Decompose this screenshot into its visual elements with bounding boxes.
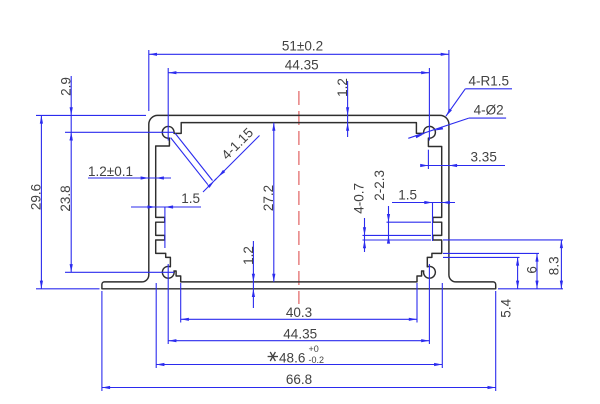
dimension 1.5 (right PCB rail depth) [392, 202, 455, 204]
svg-text:4-0.7: 4-0.7 [352, 183, 367, 214]
red dashed vertical centerline [298, 91, 300, 304]
svg-text:1.5: 1.5 [398, 188, 417, 203]
dimension *48.6 +0/-0.2 (inner width between walls) [155, 283, 157, 368]
svg-text:44.35: 44.35 [283, 327, 317, 342]
dimension 6 (right, step to bottom) [443, 252, 539, 254]
leader 4-R1.5 (corner radius callout) [465, 88, 512, 90]
aluminum enclosure profile cross-section: outer outline [102, 115, 496, 288]
dimension 2.9 (top edge to boss centerline) [70, 76, 72, 272]
svg-text:+0: +0 [309, 344, 319, 354]
svg-text:4-Ø2: 4-Ø2 [474, 103, 504, 118]
dimension 1.5 (left PCB rail depth) [131, 206, 201, 208]
svg-text:29.6: 29.6 [29, 184, 44, 210]
svg-text:1.2±0.1: 1.2±0.1 [88, 164, 133, 179]
svg-text:27.2: 27.2 [261, 185, 276, 211]
dimension 40.3 (bottom inner width) [180, 283, 182, 323]
dimension 23.8 (between boss centerlines) [65, 131, 174, 133]
svg-text:2-2.3: 2-2.3 [372, 170, 387, 201]
dimension 51±0.2 (top outer width) [148, 50, 150, 111]
asterisk star symbol [268, 356, 278, 358]
svg-text:1.2: 1.2 [335, 78, 350, 97]
svg-text:66.8: 66.8 [286, 372, 312, 387]
dimension 29.6 (overall height, left) [36, 114, 146, 116]
svg-text:3.35: 3.35 [471, 150, 497, 165]
svg-text:23.8: 23.8 [58, 185, 73, 211]
dimension 2-2.3 (rail slot gap, 2 places) [387, 221, 432, 223]
svg-text:40.3: 40.3 [286, 305, 312, 320]
svg-text:51±0.2: 51±0.2 [282, 39, 323, 54]
svg-text:48.6: 48.6 [279, 351, 305, 366]
svg-text:1.2: 1.2 [241, 246, 256, 265]
dimension 5.4 (right, lower step to bottom) [443, 256, 520, 258]
dimension 27.2 (inner cavity height) [273, 123, 275, 282]
svg-text:44.35: 44.35 [285, 58, 319, 73]
svg-text:-0.2: -0.2 [309, 355, 325, 365]
dimension 8.3 (right, rail to bottom) [443, 239, 563, 241]
dimension 4-1.15 (boss slot opening, 4 places) [175, 133, 212, 180]
dimension 44.35 (bottom, between boss centers) [167, 264, 169, 344]
dimension 44.35 (top, between screw boss centers) [167, 68, 169, 141]
dimension 1.2 (top wall thickness) [347, 81, 349, 137]
svg-text:6: 6 [525, 266, 540, 274]
svg-text:2.9: 2.9 [58, 77, 73, 96]
svg-text:5.4: 5.4 [499, 298, 514, 317]
svg-text:8.3: 8.3 [546, 256, 561, 275]
svg-text:4-R1.5: 4-R1.5 [469, 74, 510, 89]
dimension 4-0.7 (rail thickness, 4 places) [363, 234, 432, 236]
dimension 1.2±0.1 (left wall thickness) [88, 177, 171, 179]
dimension 3.35 (right wall thickness) [427, 150, 429, 169]
leader 4-φ2 (screw hole callout) [469, 117, 506, 119]
dimension 66.8 (overall width) [101, 291, 103, 391]
profile inner cavity outline with 4 screw bosses and PCB rails [156, 123, 442, 282]
dimension 1.2 (bottom wall thickness) [252, 241, 254, 308]
svg-text:1.5: 1.5 [181, 191, 200, 206]
